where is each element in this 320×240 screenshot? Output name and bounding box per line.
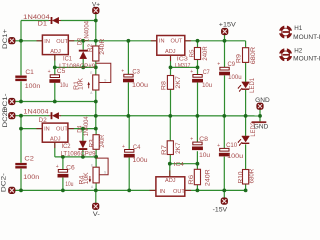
wire IC3 OUT rail to R9 corner (185, 40, 246, 42)
wire V+ pad stub (95, 14, 97, 21)
junction +15V pad tap (223, 39, 227, 43)
svg-text:10u: 10u (65, 181, 73, 188)
svg-text:100n: 100n (23, 174, 40, 181)
svg-text:1N4004: 1N4004 (85, 20, 91, 42)
svg-text:+: + (56, 164, 59, 170)
junction R10 bottom on -15V rail (244, 189, 248, 193)
wire C6 column bottom (62, 178, 64, 191)
wire GND column V+ side (GND1 to GND2 rail) (95, 102, 97, 116)
wire D4 top stub (82, 129, 84, 141)
svg-text:LED1: LED1 (250, 77, 256, 93)
wire IC1 OUT rail to IC3 IN (68, 40, 157, 42)
svg-text:R6: R6 (189, 174, 195, 185)
junction C8 bottom / R6 top (196, 162, 200, 166)
pin stub IC3 OUT (185, 40, 191, 42)
wire R3 bottom to ADJ2 rail (95, 149, 97, 157)
svg-text:C5: C5 (57, 68, 66, 75)
wire C6 column top (62, 157, 64, 170)
wire R6 top stub (196, 164, 198, 170)
junction V+ tap (94, 19, 98, 23)
wire GND column to IC2 OUT (95, 116, 97, 129)
svg-text:OUT: OUT (171, 39, 183, 45)
pin stub IC1 ADJ (54, 55, 56, 61)
regulator IC2 (42, 123, 68, 142)
wire R1 pot top stub (95, 67, 97, 75)
LED LED1 (238, 82, 250, 92)
svg-text:C1: C1 (25, 69, 34, 76)
svg-text:240R: 240R (205, 169, 211, 187)
capacitor C1 (15, 76, 26, 82)
wire GND pad stub (259, 109, 261, 116)
svg-text:LM317: LM317 (175, 63, 191, 69)
svg-text:100u: 100u (227, 153, 244, 160)
wire D3 top stub (82, 41, 84, 50)
svg-text:IN: IN (44, 127, 50, 133)
regulator IC4 (156, 177, 185, 196)
svg-text:IC1: IC1 (63, 57, 73, 63)
junction IC1 ADJ / C5 (53, 66, 57, 70)
junction R7 top on GND2 rail (168, 114, 172, 118)
wire node A up branch (20, 21, 22, 41)
wire R4 pot top stub (95, 157, 97, 167)
wire GND2 mid rail left of D2 (12, 115, 49, 117)
pin stub IC2 IN (36, 128, 42, 130)
svg-text:+: + (217, 62, 220, 68)
svg-text:2K7: 2K7 (176, 142, 182, 154)
diode D1 (49, 17, 61, 24)
junction C2 bottom on V-in rail (19, 189, 23, 193)
junction R5 top on +15V rail (196, 39, 200, 43)
wire -15V pad stub (223, 190, 225, 198)
svg-text:C6: C6 (66, 165, 75, 172)
svg-text:IC4: IC4 (174, 162, 184, 168)
diode D2 (49, 112, 61, 119)
svg-text:R7: R7 (162, 144, 168, 155)
svg-text:R5: R5 (189, 50, 195, 58)
junction D4 bottom on ADJ2 rail (81, 155, 85, 159)
wire top D1 net left segment (21, 20, 49, 22)
svg-text:C8: C8 (199, 136, 209, 143)
junction D3 top on OUT rail (81, 39, 85, 43)
junction R1 bottom on GND1 rail (94, 100, 98, 104)
junction node A (19, 39, 23, 43)
svg-text:ADJ: ADJ (165, 49, 176, 55)
wire GND2 mid rail right of D2 (60, 115, 260, 117)
svg-text:DC2-: DC2- (1, 173, 7, 192)
svg-text:100u: 100u (132, 82, 149, 89)
wire C10 column (223, 116, 225, 148)
svg-text:OUT: OUT (56, 127, 68, 133)
wire V- pad stub (95, 190, 97, 203)
wire C2 column top (20, 116, 22, 129)
wire C2 column mid (20, 129, 22, 163)
junction R4 bottom / V- tap (94, 189, 98, 193)
svg-text:OUT: OUT (56, 39, 68, 45)
wire C1 column (node A down to GND1 rail) (20, 41, 22, 76)
svg-text:10K: 10K (78, 78, 84, 90)
supply pad V+ (93, 7, 100, 14)
diode D3 (79, 50, 88, 59)
svg-text:2K7: 2K7 (176, 75, 182, 88)
junction R3 top at IC2 OUT end (94, 127, 98, 131)
svg-text:680R: 680R (250, 168, 256, 183)
wire R5 bottom stub (197, 60, 199, 68)
svg-text:OUT: OUT (173, 189, 185, 195)
wire DC1+ pad to IC1 IN (node A rail) (12, 40, 43, 42)
svg-text:D1: D1 (38, 21, 48, 28)
svg-text:-15V: -15V (213, 206, 228, 213)
svg-text:D3: D3 (78, 37, 84, 45)
wire IC4 OUT rail (185, 189, 246, 191)
svg-text:100u: 100u (228, 74, 242, 81)
pad DC1+ (9, 37, 16, 44)
capacitor C4 (122, 144, 135, 158)
svg-text:H2: H2 (294, 47, 302, 54)
svg-text:V+: V+ (92, 1, 100, 8)
pin stub IC4 ADJ (169, 170, 171, 176)
svg-text:R9: R9 (237, 53, 243, 63)
resistor R3 (93, 135, 99, 150)
wire R3 top stub (95, 129, 97, 135)
svg-text:C3: C3 (132, 69, 140, 76)
svg-text:GND: GND (255, 97, 270, 104)
wire C7 column (197, 67, 199, 74)
junction C6 top on ADJ2 rail (61, 155, 65, 159)
wire C3 column bottom (127, 82, 129, 116)
junction C5 bottom on GND1 rail (53, 100, 57, 104)
svg-text:MOUNT-P: MOUNT-P (293, 34, 320, 41)
svg-text:GND: GND (254, 123, 269, 130)
svg-text:240R: 240R (100, 134, 106, 147)
capacitor C8 (190, 137, 203, 151)
svg-text:MOUNT-P: MOUNT-P (293, 55, 320, 62)
svg-text:ADJ: ADJ (50, 136, 61, 142)
svg-text:IN: IN (159, 39, 165, 45)
pad DC2- (9, 187, 16, 194)
wire R9 top drop (245, 41, 247, 48)
junction R6 bottom on -15V rail (196, 189, 200, 193)
wire IC4 ADJ stub up (169, 164, 171, 177)
wire LED1 to GND2 rail (245, 90, 247, 116)
wire R2 top stub (95, 41, 97, 46)
svg-text:S: S (104, 171, 106, 175)
svg-text:DC2+: DC2+ (3, 107, 9, 128)
svg-text:100u: 100u (133, 157, 149, 164)
wire IC1 ADJ stub down (54, 55, 56, 68)
pin stub IC1 OUT (68, 40, 74, 42)
junction C10 top on GND2 rail (222, 114, 226, 118)
potentiometer R4 (93, 167, 99, 183)
junction C2 top on GND2 rail (19, 114, 23, 118)
svg-text:1N4004: 1N4004 (24, 108, 50, 115)
wire R5 top stub (197, 41, 199, 48)
wire LED2 to R10 (245, 144, 247, 169)
junction R3 bottom / R4 top (94, 155, 98, 159)
svg-text:C10: C10 (226, 142, 238, 149)
resistor R8 (167, 76, 173, 90)
diode D4 (79, 141, 88, 150)
wire V+ column down to OUT rail (95, 21, 97, 41)
wire D4 bottom stub (82, 150, 84, 157)
supply pad GND (257, 103, 264, 110)
svg-text:E: E (90, 71, 92, 75)
wire C5 column (54, 67, 56, 74)
svg-text:R2: R2 (88, 43, 94, 52)
pin stub IC2 OUT (68, 128, 74, 130)
svg-text:S: S (104, 78, 106, 82)
svg-text:10u: 10u (199, 152, 211, 159)
svg-text:IC2: IC2 (62, 144, 72, 150)
svg-text:240R: 240R (100, 38, 106, 55)
wire ADJ rail IC4 (170, 163, 197, 165)
ground symbol GND (252, 121, 267, 123)
wire GND1 rail from DC1- pad (12, 101, 96, 103)
capacitor C5 (48, 69, 61, 83)
supply pad V- (92, 203, 99, 210)
junction LED2 top on GND2 rail (244, 114, 248, 118)
junction GND symbol tap (258, 114, 262, 118)
wire LED2 top stub (245, 116, 247, 136)
wire R4 pot bottom stub (95, 183, 97, 191)
wire ADJ rail IC3 (171, 66, 198, 68)
wire R10 bottom to rail (245, 184, 247, 190)
pin stub IC4 OUT (185, 189, 191, 191)
wire R9 bottom to LED1 (245, 62, 247, 82)
junction R2 bottom / R1 top (94, 66, 98, 70)
wire bottom rail DC2- to IC4 IN (12, 189, 156, 191)
pin stub IC3 IN (151, 40, 157, 42)
svg-text:R3: R3 (90, 139, 96, 148)
svg-text:100n: 100n (25, 83, 41, 90)
svg-text:ADJ: ADJ (50, 49, 61, 55)
wire +15V pad stub (224, 35, 226, 41)
junction C3 top on OUT rail (126, 39, 130, 43)
svg-text:+: + (190, 69, 193, 75)
svg-text:H1: H1 (294, 25, 302, 32)
svg-text:+: + (190, 137, 193, 143)
wire R7 column (169, 116, 171, 141)
junction C3 bottom on GND2 rail (126, 114, 130, 118)
resistor R5 (194, 48, 200, 60)
junction IC3 ADJ / R8 top (169, 66, 173, 70)
junction R2 top on OUT rail (94, 39, 98, 43)
resistor R2 (93, 46, 99, 61)
pin stub IC4 IN (150, 189, 156, 191)
svg-text:240R: 240R (203, 46, 209, 61)
wire IC2 ADJ stub down (54, 142, 56, 157)
svg-text:C7: C7 (203, 69, 210, 76)
wire top D1 net right segment to V+ column (60, 20, 96, 22)
pin stub IC1 IN (37, 40, 43, 42)
svg-text:10u: 10u (202, 82, 213, 89)
svg-text:D4: D4 (78, 125, 84, 133)
wire IC3 ADJ stub down (170, 55, 172, 67)
potentiometer R1 (93, 75, 99, 90)
wire C4 column bottom (128, 158, 130, 191)
wire C3 column top (127, 41, 129, 74)
svg-text:E: E (91, 163, 93, 167)
svg-text:R8: R8 (161, 80, 167, 90)
mount hole H1 (278, 25, 292, 39)
svg-text:10K: 10K (84, 172, 90, 184)
junction -15V pad tap / C10 bottom (222, 189, 226, 193)
supply pad +15V (221, 28, 228, 35)
svg-text:C4: C4 (133, 144, 141, 151)
svg-text:DC1+: DC1+ (3, 28, 9, 49)
junction R5 bottom / C7 top (196, 66, 200, 70)
regulator IC1 (42, 35, 68, 55)
wire R8 column (170, 67, 172, 75)
svg-text:ADJ: ADJ (165, 178, 176, 184)
capacitor C6 (56, 164, 69, 178)
wire IC2 OUT (68, 128, 96, 130)
svg-text:10u: 10u (60, 82, 68, 89)
pin stub IC3 ADJ (170, 55, 172, 61)
capacitor C2 (15, 163, 26, 169)
resistor R9 (243, 48, 249, 63)
wire R6 bottom stub (196, 185, 198, 191)
svg-text:+: + (217, 143, 220, 149)
svg-text:IC3: IC3 (177, 56, 188, 62)
capacitor C7 (190, 69, 203, 83)
svg-text:680R: 680R (251, 46, 257, 64)
pad DC2+ (9, 112, 16, 119)
junction C1 bottom on GND1 rail (19, 100, 23, 104)
resistor R10 (243, 170, 249, 185)
supply pad -15V (221, 198, 228, 205)
junction GND column on GND2 rail (94, 114, 98, 118)
junction D3 bottom on ADJ rail (81, 66, 85, 70)
junction R7 bottom / IC4 ADJ (168, 162, 172, 166)
wire C4 column top (128, 116, 130, 149)
junction IC2 IN / C2 (19, 127, 23, 131)
svg-text:+: + (48, 69, 51, 75)
LED LED2 (238, 136, 250, 146)
junction C6 bottom on V-in rail (61, 189, 65, 193)
wire D3 bottom stub (82, 59, 84, 68)
resistor R6 (194, 169, 200, 184)
wire C8 column (196, 116, 198, 142)
svg-text:IN: IN (160, 189, 166, 195)
mount hole H2 (278, 48, 292, 62)
capacitor C3 (121, 69, 134, 83)
wire C9 column (224, 41, 226, 67)
wire R2 bottom to ADJ rail (95, 61, 97, 67)
regulator IC3 (157, 36, 185, 56)
svg-text:+15V: +15V (219, 21, 237, 28)
svg-text:R10: R10 (239, 171, 245, 184)
pad DC1- (9, 98, 16, 105)
pin stub IC2 ADJ (54, 142, 56, 148)
resistor R7 (167, 141, 173, 155)
svg-text:1N4004: 1N4004 (84, 116, 90, 136)
junction D4 top on IC2 OUT wire (81, 127, 85, 131)
svg-text:C9: C9 (228, 61, 236, 68)
wire ADJ rail IC1 (55, 66, 96, 68)
wire R1 pot bottom to GND1 rail (95, 90, 97, 102)
svg-text:IN: IN (44, 39, 50, 45)
svg-text:LT1086CP#9: LT1086CP#9 (61, 151, 97, 157)
svg-text:V-: V- (93, 211, 100, 218)
svg-text:C2: C2 (24, 156, 34, 163)
wire GND symbol stub (259, 116, 261, 122)
wire IC2 IN (21, 128, 42, 130)
svg-text:+: + (122, 144, 125, 150)
capacitor C9 (217, 62, 230, 76)
junction C4 bottom on V-in rail (127, 189, 131, 193)
junction C8 top on GND2 rail (196, 114, 200, 118)
svg-text:+: + (121, 69, 124, 75)
capacitor C10 (217, 143, 230, 157)
wire ADJ2 rail IC2 (55, 156, 96, 158)
